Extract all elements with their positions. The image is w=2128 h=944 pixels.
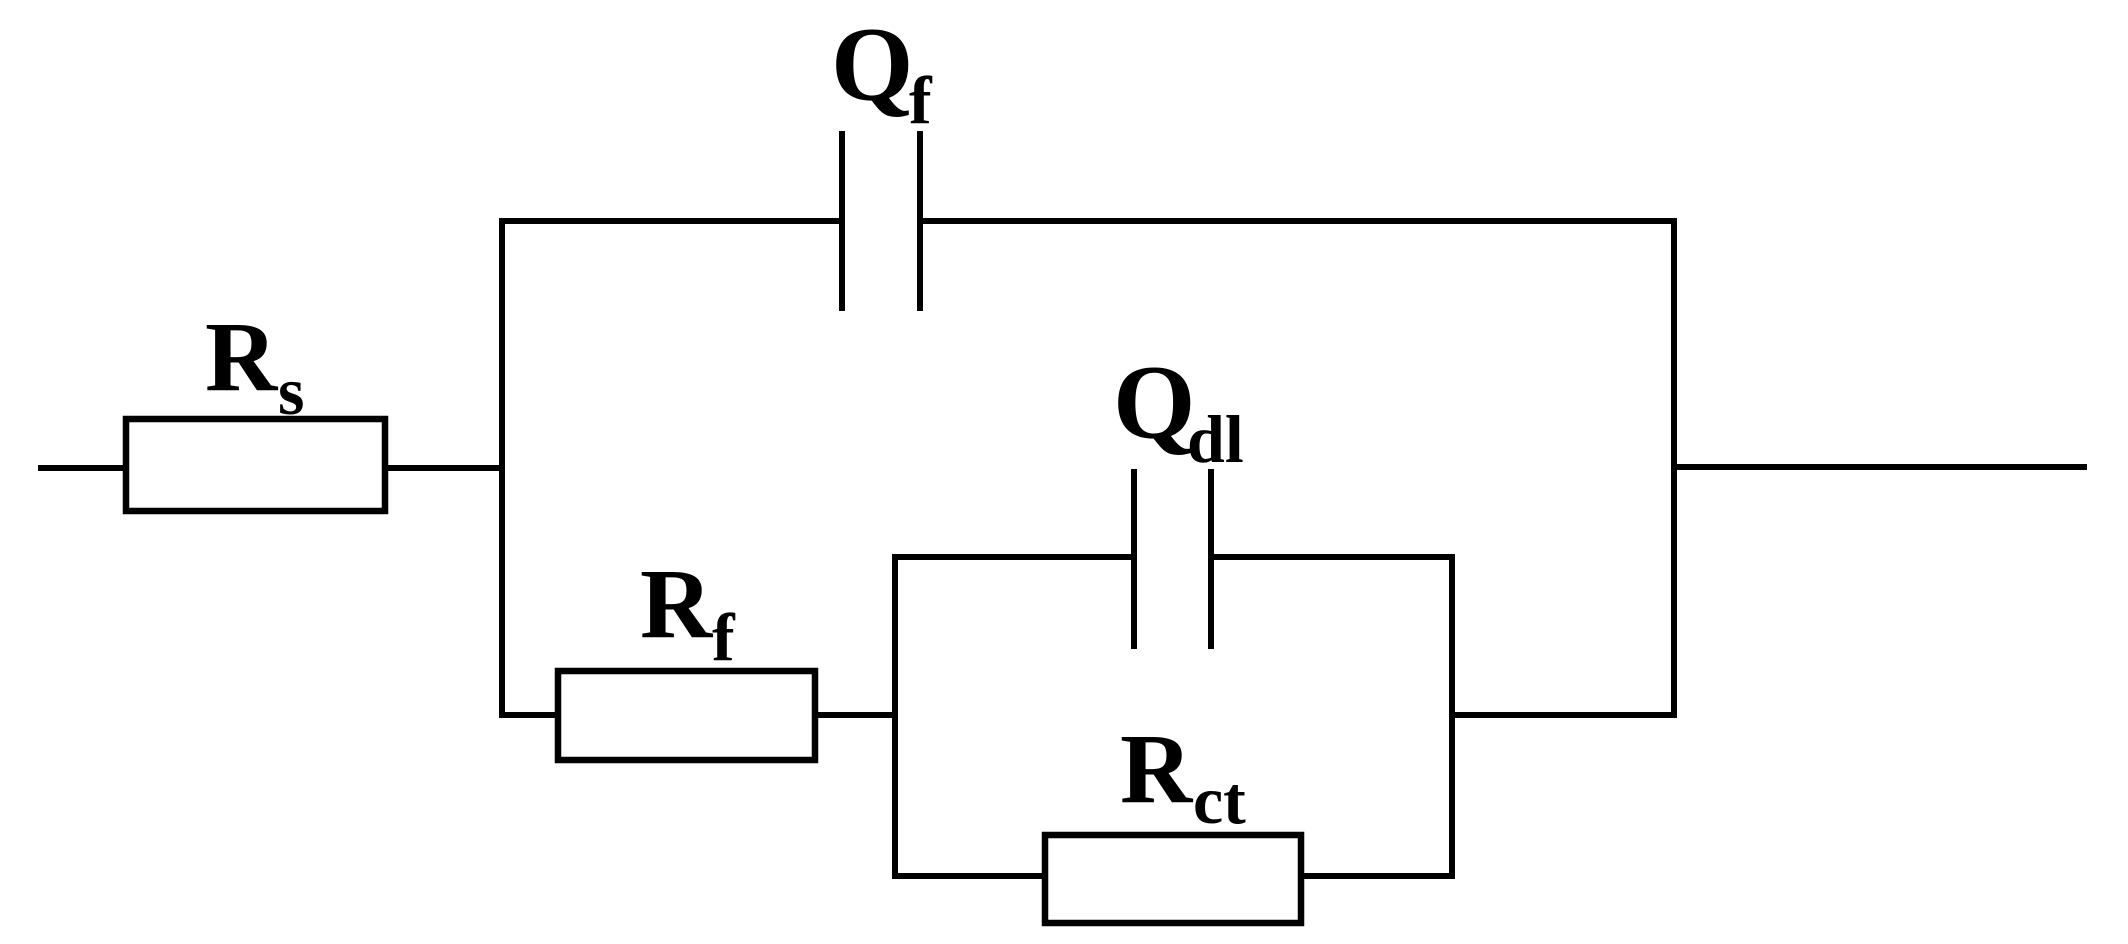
svg-text:R: R (640, 548, 714, 659)
CPE Qf left plate (839, 131, 845, 311)
wire: left vertical of outer parallel loop (499, 218, 505, 718)
wire: left input lead (38, 465, 126, 471)
wire: Rf to inner loop (815, 712, 898, 718)
resistor Rct (1045, 835, 1301, 923)
svg-text:R: R (205, 301, 279, 412)
resistor Rf (558, 671, 815, 760)
svg-text:dl: dl (1187, 401, 1244, 477)
wire: output lead (1674, 464, 2087, 470)
CPE Qdl right plate (1208, 469, 1214, 649)
wire: top-left segment to Qf (499, 218, 841, 224)
svg-text:ct: ct (1193, 762, 1246, 838)
svg-text:Q: Q (1113, 344, 1195, 461)
wire: right vertical of outer parallel loop (1671, 218, 1677, 718)
wire: top-right segment from Qf to right vertical (921, 218, 1677, 224)
svg-text:s: s (278, 353, 304, 429)
wire: inner loop to outer right vertical (1452, 712, 1677, 718)
wire: Rs to left node (385, 465, 505, 471)
svg-text:f: f (909, 62, 933, 138)
wire: inner bottom-left segment to Rct (892, 873, 1045, 879)
wire: inner top-left segment to Qdl (892, 554, 1133, 560)
CPE Qf right plate (917, 131, 923, 311)
wire: inner loop right vertical (1449, 554, 1455, 879)
wire: bottom-left segment to Rf (499, 712, 558, 718)
wire: inner loop left vertical (892, 554, 898, 879)
svg-text:f: f (712, 599, 736, 675)
wire: inner top-right segment from Qdl (1212, 554, 1455, 560)
svg-text:Q: Q (831, 6, 913, 123)
resistor Rs (126, 419, 385, 511)
svg-text:R: R (1120, 713, 1194, 824)
wire: Rct to inner right vertical (1301, 873, 1455, 879)
CPE Qdl left plate (1131, 469, 1137, 649)
